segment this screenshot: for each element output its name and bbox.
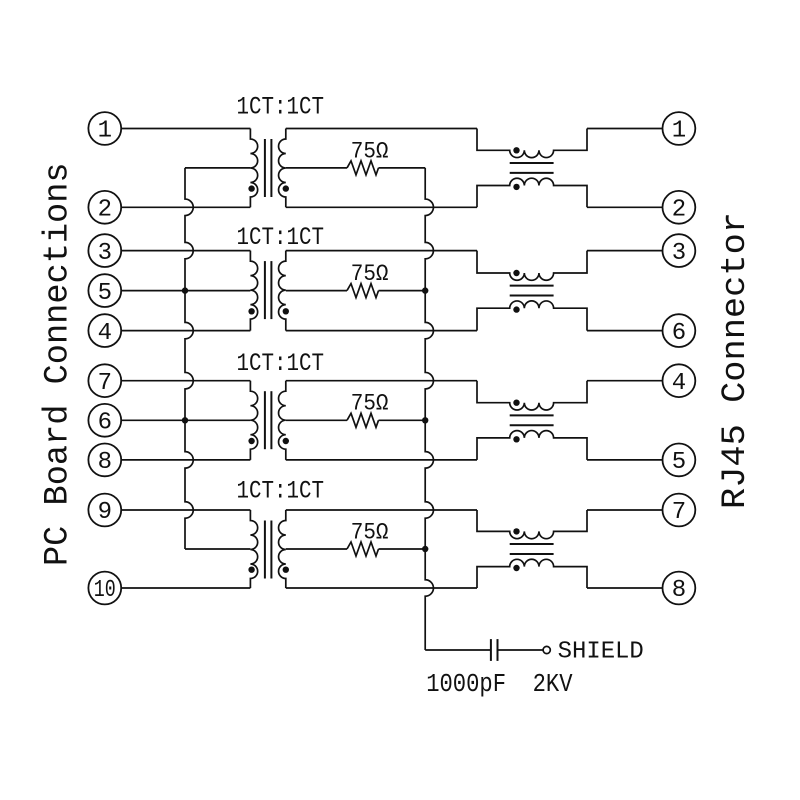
svg-text:8: 8	[672, 577, 686, 604]
wire: T3 secondary center tap to resistor	[286, 419, 347, 421]
choke L3 top winding with jogs	[477, 381, 587, 410]
choke L4 top phase dot	[513, 528, 519, 534]
svg-text:RJ45 Connector: RJ45 Connector	[717, 212, 755, 509]
choke L1 top winding with jogs	[477, 129, 587, 158]
transformer T3 primary winding	[250, 381, 257, 460]
wire: choke to RJ45 pin 7	[587, 509, 663, 511]
wire: T1 primary center tap	[185, 167, 250, 169]
svg-text:6: 6	[98, 410, 112, 437]
PC board pin 4 circle	[88, 314, 121, 347]
transformer T1 secondary winding	[279, 129, 286, 208]
wire: choke to RJ45 pin 8	[587, 587, 663, 589]
wire: T1 secondary bottom to choke	[286, 206, 477, 208]
transformer T1 core line 2	[270, 139, 272, 197]
transformer T1 core line 1	[264, 139, 266, 197]
resistor 75ohm zigzag	[347, 542, 379, 556]
PC board pin 2 circle	[88, 191, 121, 224]
PC board pin 8 circle	[88, 444, 121, 477]
svg-text:SHIELD: SHIELD	[558, 638, 644, 665]
choke L4 bottom phase dot	[513, 565, 519, 571]
transformer T3 primary phase dot	[248, 438, 254, 444]
wire: bus bottom corner to capacitor	[425, 649, 491, 651]
wire: T3 secondary bottom to choke	[286, 459, 477, 461]
RJ45 pin 4 circle	[663, 364, 696, 397]
RJ45 pin 6 circle	[663, 314, 696, 347]
svg-text:75Ω: 75Ω	[351, 391, 389, 417]
junction: pin5 to bus	[182, 287, 188, 293]
choke L2 bottom winding with jogs	[477, 301, 587, 331]
transformer T1 primary phase dot	[248, 185, 254, 191]
wire: T2 secondary top to choke	[286, 250, 477, 252]
RJ45 pin 1 circle	[663, 112, 696, 145]
junction: pin6 to bus	[182, 417, 188, 423]
junction: R4 to bus	[422, 546, 428, 552]
RJ45 pin 7 circle	[663, 494, 696, 527]
wire: left vertical center-tap bus with hops	[185, 168, 193, 549]
svg-text:4: 4	[98, 320, 112, 347]
choke L1 bottom phase dot	[513, 184, 519, 190]
transformer T2 primary winding	[250, 251, 257, 331]
wire: choke to RJ45 pin 1	[587, 128, 663, 130]
PC board pin 5 circle	[88, 274, 121, 307]
transformer T4 primary phase dot	[248, 567, 254, 573]
wire: pin 5 to transformer	[121, 290, 250, 292]
svg-text:75Ω: 75Ω	[351, 138, 389, 164]
capacitor C1 right plate	[497, 639, 499, 661]
choke L4 bottom winding with jogs	[477, 559, 587, 588]
wire: resistor R1 to right bus	[379, 167, 426, 169]
transformer T3 core line 1	[264, 391, 266, 449]
transformer T4 core line 1	[264, 521, 266, 579]
PC board pin 7 circle	[88, 364, 121, 397]
wire: T1 secondary top to choke	[286, 128, 477, 130]
transformer T3 core line 2	[270, 391, 272, 449]
transformer T4 secondary phase dot	[283, 567, 289, 573]
transformer T2 core line 2	[270, 261, 272, 319]
wire: right vertical termination bus with hops	[425, 168, 433, 650]
svg-text:2: 2	[98, 197, 112, 224]
choke L4 core line 2	[510, 553, 554, 555]
svg-text:7: 7	[672, 499, 686, 526]
PC board pin 6 circle	[88, 404, 121, 437]
transformer T4 primary winding	[250, 510, 257, 588]
shield open terminal	[543, 646, 550, 653]
transformer T2 core line 1	[264, 261, 266, 319]
svg-text:9: 9	[98, 499, 112, 526]
junction: R3 to bus	[422, 417, 428, 423]
choke L2 core line 2	[510, 295, 554, 297]
transformer T3 secondary winding	[279, 381, 286, 460]
RJ45 pin 2 circle	[663, 191, 696, 224]
transformer T4 secondary winding	[279, 510, 286, 588]
svg-text:1: 1	[98, 118, 112, 145]
resistor 75ohm zigzag	[347, 413, 379, 427]
wire: pin 9 to transformer	[121, 509, 250, 511]
wire: resistor R2 to right bus	[379, 290, 426, 292]
svg-text:2: 2	[672, 197, 686, 224]
wire: choke to RJ45 pin 4	[587, 380, 663, 382]
choke L1 core line 1	[510, 162, 554, 164]
svg-text:8: 8	[98, 449, 112, 476]
svg-text:4: 4	[672, 370, 686, 397]
wire: T3 secondary top to choke	[286, 380, 477, 382]
junction: R2 to bus	[422, 287, 428, 293]
wire: T4 secondary top to choke	[286, 509, 477, 511]
transformer T1 secondary phase dot	[283, 185, 289, 191]
RJ45 pin 5 circle	[663, 444, 696, 477]
RJ45 pin 3 circle	[663, 234, 696, 267]
wire: pin 1 to transformer	[121, 128, 250, 130]
svg-text:1CT:1CT: 1CT:1CT	[237, 477, 325, 506]
svg-text:1CT:1CT: 1CT:1CT	[237, 349, 325, 378]
choke L2 top phase dot	[513, 270, 519, 276]
transformer T1 primary winding	[250, 129, 257, 208]
wire: capacitor to shield terminal	[498, 649, 544, 651]
svg-text:1CT:1CT: 1CT:1CT	[237, 92, 325, 121]
svg-text:7: 7	[98, 370, 112, 397]
resistor 75ohm zigzag	[347, 284, 379, 298]
wire: choke to RJ45 pin 6	[587, 330, 663, 332]
choke L3 bottom winding with jogs	[477, 431, 587, 460]
wire: choke to RJ45 pin 2	[587, 206, 663, 208]
choke L4 core line 1	[510, 543, 554, 545]
wire: pin 3 to transformer	[121, 250, 250, 252]
PC board pin 3 circle	[88, 234, 121, 267]
svg-text:3: 3	[672, 240, 686, 267]
svg-text:5: 5	[672, 449, 686, 476]
choke L3 top phase dot	[513, 400, 519, 406]
wire: pin 10 to transformer	[121, 587, 250, 589]
svg-text:1000pF 2KV: 1000pF 2KV	[426, 670, 573, 699]
choke L1 top phase dot	[513, 147, 519, 153]
wire: T4 secondary bottom to choke	[286, 587, 477, 589]
wire: resistor R3 to right bus	[379, 419, 426, 421]
PC board pin 10 circle	[88, 572, 121, 605]
transformer T2 primary phase dot	[248, 308, 254, 314]
wire: T2 secondary center tap to resistor	[286, 290, 347, 292]
svg-text:6: 6	[672, 320, 686, 347]
transformer T3 secondary phase dot	[283, 438, 289, 444]
resistor 75ohm zigzag	[347, 161, 379, 175]
wire: pin 2 to transformer	[121, 206, 250, 208]
svg-text:5: 5	[98, 280, 112, 307]
svg-text:PC Board Connections: PC Board Connections	[39, 162, 77, 566]
choke L2 bottom phase dot	[513, 306, 519, 312]
choke L2 top winding with jogs	[477, 251, 587, 281]
choke L2 core line 1	[510, 285, 554, 287]
choke L3 core line 2	[510, 424, 554, 426]
svg-text:1: 1	[672, 118, 686, 145]
wire: pin 8 to transformer	[121, 459, 250, 461]
PC board pin 9 circle	[88, 494, 121, 527]
wire: T4 secondary center tap to resistor	[286, 548, 347, 550]
wire: pin 4 to transformer	[121, 330, 250, 332]
svg-text:3: 3	[98, 240, 112, 267]
RJ45 pin 8 circle	[663, 572, 696, 605]
choke L4 top winding with jogs	[477, 510, 587, 539]
choke L1 core line 2	[510, 172, 554, 174]
wire: T4 primary center tap	[185, 548, 250, 550]
svg-text:10: 10	[94, 577, 116, 604]
wire: choke to RJ45 pin 5	[587, 459, 663, 461]
wire: resistor R4 to right bus	[379, 548, 426, 550]
wire: T2 secondary bottom to choke	[286, 330, 477, 332]
choke L3 bottom phase dot	[513, 436, 519, 442]
PC board pin 1 circle	[88, 112, 121, 145]
wire: T1 secondary center tap to resistor	[286, 167, 347, 169]
wire: choke to RJ45 pin 3	[587, 250, 663, 252]
wire: pin 6 to transformer	[121, 419, 250, 421]
capacitor C1 left plate	[490, 639, 492, 661]
transformer T2 secondary winding	[279, 251, 286, 331]
transformer T2 secondary phase dot	[283, 308, 289, 314]
svg-text:1CT:1CT: 1CT:1CT	[237, 223, 325, 252]
svg-text:75Ω: 75Ω	[351, 261, 389, 287]
transformer T4 core line 2	[270, 521, 272, 579]
choke L1 bottom winding with jogs	[477, 178, 587, 207]
choke L3 core line 1	[510, 414, 554, 416]
svg-text:75Ω: 75Ω	[351, 519, 389, 545]
wire: pin 7 to transformer	[121, 380, 250, 382]
